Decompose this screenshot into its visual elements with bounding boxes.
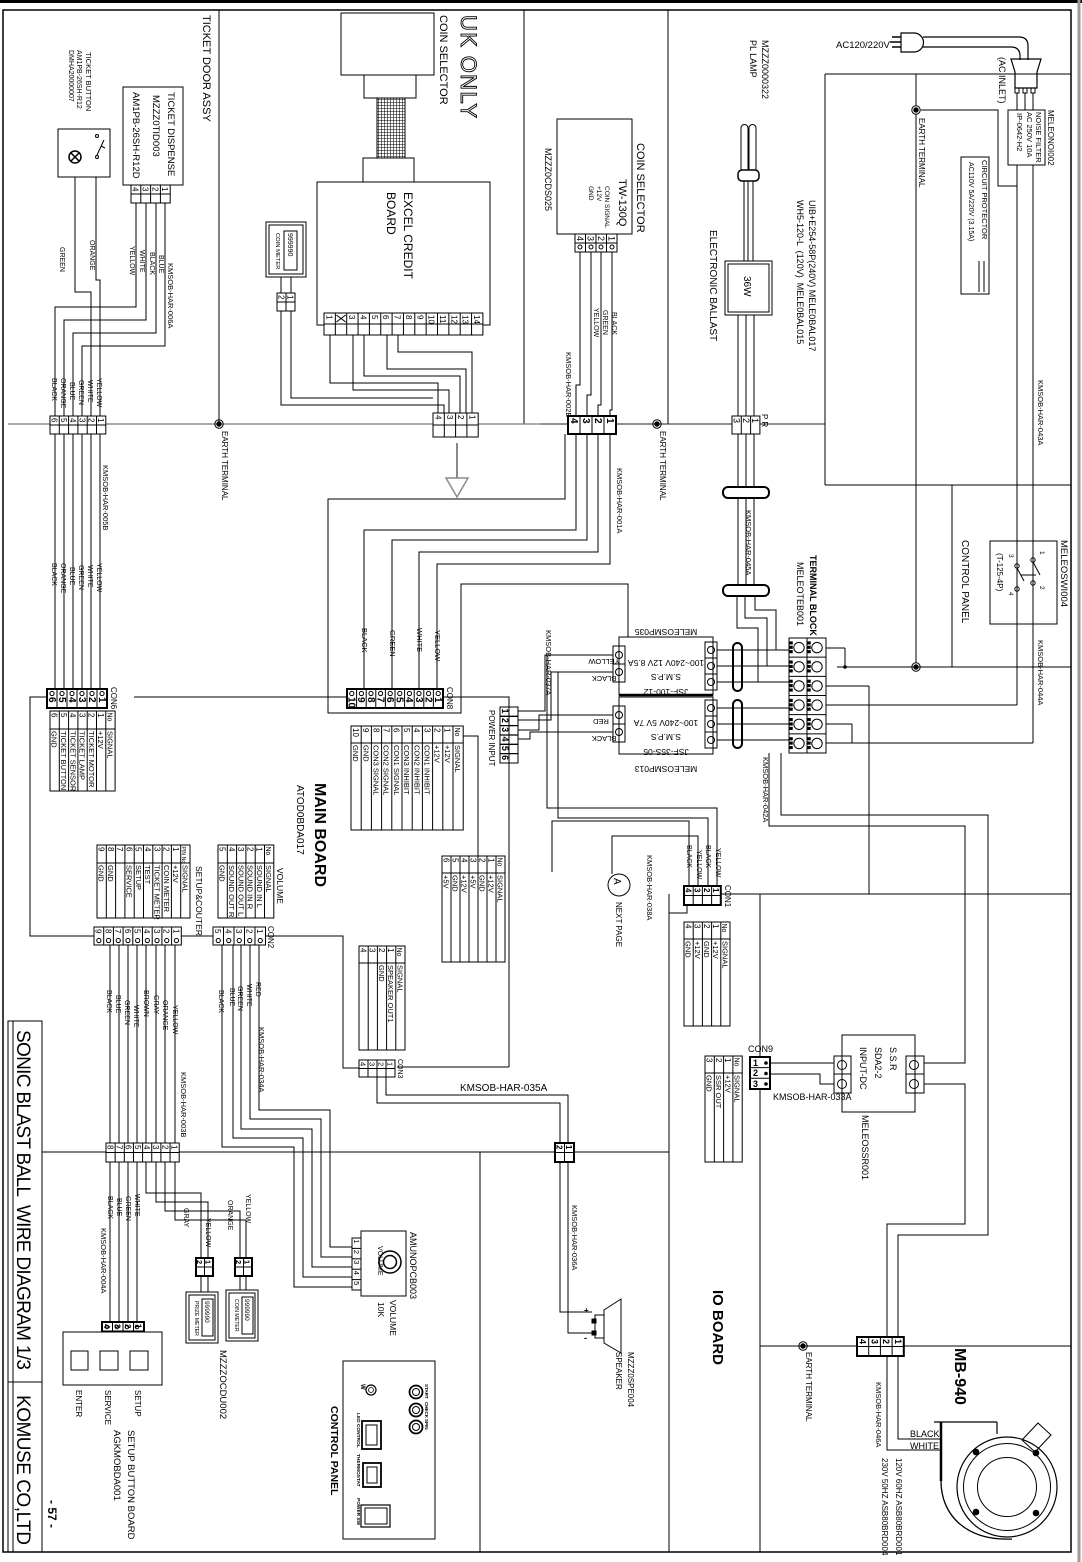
svg-text:3: 3 — [76, 697, 87, 703]
svg-text:NOISE FILTER: NOISE FILTER — [1034, 112, 1043, 163]
svg-text:KMSOB-HAR-038A: KMSOB-HAR-038A — [645, 855, 654, 920]
wires smps to CON1 — [547, 654, 613, 656]
connector J3 — [568, 416, 616, 434]
svg-text:BLACK: BLACK — [592, 674, 617, 683]
svg-text:SIGNAL: SIGNAL — [733, 1075, 742, 1103]
setup button board — [63, 1332, 162, 1385]
ferrite beads vertical — [733, 643, 742, 691]
earth terminal (coin section) — [653, 420, 661, 428]
svg-text:4: 4 — [858, 1339, 868, 1344]
svg-text:CON3: CON3 — [396, 1059, 403, 1079]
svg-text:1: 1 — [500, 709, 510, 714]
svg-text:YELLOW: YELLOW — [433, 630, 442, 662]
svg-text:(T-125-4P): (T-125-4P) — [995, 553, 1004, 592]
table volume signals — [218, 845, 274, 918]
svg-text:+12V: +12V — [96, 731, 105, 749]
svg-text:GND: GND — [50, 731, 59, 748]
svg-text:No: No — [720, 924, 727, 933]
svg-text:4: 4 — [1007, 592, 1014, 596]
svg-text:3: 3 — [586, 236, 596, 241]
svg-text:3: 3 — [704, 1058, 713, 1063]
svg-text:KMSOB-HAR-034A: KMSOB-HAR-034A — [257, 1027, 266, 1092]
wires PR down through ferrites — [737, 434, 739, 487]
svg-text:BLUE: BLUE — [157, 255, 164, 274]
svg-text:W: W — [359, 1384, 365, 1390]
svg-text:CON6: CON6 — [109, 687, 118, 710]
svg-text:SIGNAL: SIGNAL — [180, 865, 189, 893]
svg-text:ORANGE: ORANGE — [59, 563, 66, 594]
svg-text:999990: 999990 — [203, 1301, 210, 1323]
wires excel board to connector J2 — [281, 311, 444, 413]
svg-text:3: 3 — [77, 418, 86, 423]
svg-text:1: 1 — [243, 1260, 252, 1264]
svg-text:6: 6 — [392, 728, 401, 733]
wrap wire around CON8 — [328, 434, 628, 713]
svg-text:10K: 10K — [376, 1302, 386, 1317]
speaker MZZZ0SPE004 — [595, 1315, 604, 1338]
smps1 MELEOSMP035 — [619, 637, 713, 695]
svg-text:MELEOSSR001: MELEOSSR001 — [860, 1115, 870, 1180]
svg-text:DMHA20000007: DMHA20000007 — [67, 50, 74, 102]
svg-text:VOLUME: VOLUME — [275, 868, 285, 904]
svg-text:IP-0642-H2: IP-0642-H2 — [1015, 113, 1024, 151]
svg-text:4: 4 — [131, 187, 140, 192]
svg-text:230V 50HZ ASB80BRD004: 230V 50HZ ASB80BRD004 — [880, 1458, 889, 1556]
rocker switch 1 — [362, 1421, 381, 1449]
svg-text:2: 2 — [195, 1260, 204, 1264]
mains line to blower — [760, 1345, 1071, 1347]
svg-text:JSF-35S-05: JSF-35S-05 — [643, 747, 689, 757]
svg-text:6: 6 — [49, 418, 58, 423]
svg-text:MELEOTEB001: MELEOTEB001 — [795, 562, 805, 626]
svg-text:1: 1 — [285, 295, 294, 300]
svg-text:GREEN: GREEN — [77, 380, 84, 405]
wire POWER INPUT down to CON3 — [397, 1066, 509, 1068]
power cord — [923, 37, 1028, 60]
svg-text:+12V: +12V — [460, 875, 469, 893]
svg-text:999990: 999990 — [286, 233, 293, 256]
svg-text:WHITE: WHITE — [86, 380, 93, 403]
svg-text:GND: GND — [361, 745, 370, 762]
svg-text:1: 1 — [169, 1145, 178, 1150]
wires lamp circuit to terminal block — [737, 596, 758, 682]
svg-text:CON2 SIGNAL: CON2 SIGNAL — [382, 745, 391, 795]
svg-text:3: 3 — [352, 1260, 361, 1264]
svg-text:5: 5 — [59, 418, 68, 423]
wires CON9 to SSR — [770, 1062, 834, 1064]
table power out 6 — [442, 856, 505, 962]
svg-text:1: 1 — [204, 1260, 213, 1264]
svg-text:SDA2-2: SDA2-2 — [873, 1047, 883, 1079]
svg-text:4: 4 — [500, 736, 510, 741]
svg-text:7: 7 — [113, 929, 122, 934]
earth wire top — [912, 106, 920, 114]
svg-text:1: 1 — [255, 929, 264, 934]
svg-text:No: No — [453, 728, 460, 737]
wires setup counter connector down to 8pin — [109, 945, 111, 1143]
wires ticket button — [75, 177, 91, 416]
svg-text:100~240V 12V 8.5A: 100~240V 12V 8.5A — [628, 658, 705, 668]
table CON9 signals — [705, 1056, 742, 1162]
svg-text:GREEN: GREEN — [58, 247, 65, 272]
svg-text:4: 4 — [66, 697, 77, 703]
svg-text:8: 8 — [105, 1145, 114, 1150]
svg-text:3: 3 — [413, 697, 424, 703]
svg-text:SONIC BLAST BALL WIRE DIAGRAM: SONIC BLAST BALL WIRE DIAGRAM 1/3 — [12, 1030, 33, 1370]
svg-text:9: 9 — [94, 929, 103, 934]
svg-text:SOUND IN R: SOUND IN R — [246, 865, 255, 910]
svg-text:7: 7 — [115, 1145, 124, 1150]
connector CON6 — [47, 689, 107, 708]
earth terminal (io board) — [799, 1342, 807, 1350]
svg-text:SOUND OUT L: SOUND OUT L — [236, 865, 245, 916]
svg-text:10: 10 — [346, 697, 357, 709]
smps2 MELEOSMP013 — [619, 697, 713, 754]
svg-text:+12V: +12V — [443, 745, 452, 763]
svg-text:SIGNAL: SIGNAL — [105, 731, 114, 759]
svg-text:KOMUSE CO,LTD: KOMUSE CO,LTD — [12, 1395, 33, 1545]
svg-text:No: No — [395, 948, 402, 957]
coin meter connector — [277, 293, 295, 311]
svg-text:BLACK: BLACK — [217, 990, 224, 1013]
svg-text:4: 4 — [568, 418, 579, 424]
svg-text:3: 3 — [693, 924, 702, 929]
wire CON2 to CON3 — [266, 936, 359, 1068]
svg-text:GND: GND — [351, 745, 360, 762]
svg-text:YELLOW: YELLOW — [95, 563, 102, 593]
svg-text:TICKET SENSOR: TICKET SENSOR — [68, 731, 77, 792]
svg-text:BLUE: BLUE — [115, 1198, 122, 1217]
svg-text:TICKET MOTOR: TICKET MOTOR — [87, 731, 96, 788]
svg-text:4: 4 — [358, 948, 367, 953]
connector CON3 — [359, 1060, 395, 1077]
svg-text:9: 9 — [96, 847, 105, 852]
svg-text:ORANGE: ORANGE — [226, 1200, 233, 1231]
svg-text:3: 3 — [693, 888, 702, 893]
svg-text:KMSOB-HAR-002B: KMSOB-HAR-002B — [564, 352, 573, 417]
svg-text:2: 2 — [234, 1260, 243, 1264]
svg-text:SPEAKER OUT1: SPEAKER OUT1 — [386, 965, 395, 1023]
svg-text:POWER INPUT: POWER INPUT — [487, 710, 496, 767]
svg-text:AGKMOBDA001: AGKMOBDA001 — [111, 1430, 122, 1501]
svg-text:SIGNAL: SIGNAL — [720, 941, 729, 969]
wire CON6 to CON8 — [134, 696, 347, 698]
svg-text:GND: GND — [684, 941, 693, 958]
svg-text:1: 1 — [96, 697, 107, 703]
svg-text:BOARD: BOARD — [384, 192, 398, 235]
svg-text:3: 3 — [422, 728, 431, 733]
connector PR — [732, 416, 760, 434]
speaker connector — [555, 1143, 574, 1162]
svg-text:+12V: +12V — [171, 865, 180, 883]
connector MB940 — [857, 1337, 904, 1356]
svg-text:3: 3 — [77, 713, 86, 718]
svg-text:(AC INLET): (AC INLET) — [997, 57, 1007, 104]
noise filter MELEONOI002 — [1008, 110, 1045, 165]
UK coin selector head — [341, 13, 434, 75]
blower outlet nub — [1022, 1423, 1051, 1452]
svg-text:1: 1 — [96, 713, 105, 718]
svg-text:2: 2 — [162, 847, 171, 852]
ticket button SW1 — [58, 129, 110, 177]
svg-text:5: 5 — [132, 929, 141, 934]
svg-text:AM1PB-26SH-R12: AM1PB-26SH-R12 — [75, 50, 82, 109]
svg-text:5: 5 — [213, 929, 222, 934]
svg-text:7: 7 — [393, 315, 402, 320]
table CON8 signals — [351, 726, 463, 830]
svg-text:1: 1 — [711, 924, 720, 929]
coin selector connector — [575, 234, 617, 252]
svg-text:3: 3 — [151, 1145, 160, 1150]
svg-text:2: 2 — [592, 418, 603, 424]
svg-text:3: 3 — [236, 847, 245, 852]
setup buttons — [71, 1351, 88, 1370]
svg-text:5: 5 — [133, 1145, 142, 1150]
svg-text:GND: GND — [218, 865, 227, 882]
svg-text:IO BOARD: IO BOARD — [709, 1290, 726, 1365]
svg-text:2: 2 — [245, 847, 254, 852]
svg-text:+: + — [584, 1306, 589, 1315]
svg-text:ENTER: ENTER — [74, 1390, 83, 1417]
connector J1 6pin — [50, 416, 106, 434]
svg-text:2: 2 — [477, 858, 486, 863]
svg-text:CHECK: CHECK — [424, 1402, 429, 1419]
smps1 left pins — [613, 646, 625, 682]
svg-text:ELECTRONIC BALLAST: ELECTRONIC BALLAST — [707, 230, 718, 341]
svg-text:1: 1 — [1038, 551, 1045, 555]
svg-text:7: 7 — [382, 728, 391, 733]
svg-text:3: 3 — [152, 847, 161, 852]
wire CON1 corner down — [669, 905, 687, 913]
svg-text:MZZZOCDU002: MZZZOCDU002 — [217, 1350, 228, 1419]
setup counter connector — [94, 927, 181, 945]
svg-text:5: 5 — [370, 315, 379, 320]
svg-text:SSR OUT: SSR OUT — [714, 1075, 723, 1109]
svg-text:2: 2 — [352, 1250, 361, 1254]
svg-text:GND: GND — [97, 865, 106, 882]
svg-text:6: 6 — [123, 929, 132, 934]
control panel box — [343, 1361, 435, 1539]
svg-text:MB-940: MB-940 — [951, 1348, 968, 1405]
svg-text:8: 8 — [371, 728, 380, 733]
svg-text:4: 4 — [68, 713, 77, 718]
svg-text:9: 9 — [415, 315, 424, 320]
svg-text:3: 3 — [367, 1062, 376, 1066]
svg-text:SERVICE: SERVICE — [103, 1390, 112, 1425]
earth terminal (power) — [912, 663, 920, 671]
svg-text:4: 4 — [352, 1271, 361, 1275]
svg-text:TERMINAL BLOCK: TERMINAL BLOCK — [808, 555, 818, 636]
svg-text:TW-130Q: TW-130Q — [616, 179, 628, 227]
svg-text:4: 4 — [142, 929, 151, 934]
svg-text:YELLOW: YELLOW — [592, 308, 599, 338]
wires CON3 to speaker connector — [377, 1077, 560, 1143]
svg-text:36W: 36W — [741, 276, 752, 297]
svg-text:EARTH TERMINAL: EARTH TERMINAL — [220, 431, 229, 501]
svg-text:100~240V 5V 7A: 100~240V 5V 7A — [633, 718, 698, 728]
svg-text:KMSOB-HAR-037A: KMSOB-HAR-037A — [544, 630, 553, 695]
svg-text:GRAY: GRAY — [152, 995, 159, 1015]
svg-text:KMSOB-HAR-035A: KMSOB-HAR-035A — [460, 1083, 548, 1094]
prize meter — [186, 1292, 218, 1343]
svg-text:2: 2 — [741, 418, 751, 423]
svg-text:GND: GND — [478, 875, 487, 892]
blower scroll housing — [940, 1422, 943, 1481]
svg-text:SERVICE: SERVICE — [125, 865, 134, 898]
svg-text:KMSOB-HAR-004A: KMSOB-HAR-004A — [99, 1228, 108, 1293]
svg-text:3: 3 — [1007, 554, 1014, 558]
svg-text:4: 4 — [143, 847, 152, 852]
PL lamp tubes — [741, 125, 748, 170]
svg-text:4: 4 — [683, 924, 692, 929]
svg-text:5: 5 — [59, 713, 68, 718]
svg-text:CON2 INHIBIT: CON2 INHIBIT — [412, 745, 421, 795]
svg-text:2: 2 — [702, 924, 711, 929]
svg-text:YELLOW: YELLOW — [695, 850, 702, 880]
svg-text:2: 2 — [162, 929, 171, 934]
svg-text:1: 1 — [486, 858, 495, 863]
svg-text:YELLOW: YELLOW — [171, 1005, 178, 1035]
svg-text:+5V: +5V — [469, 875, 478, 889]
svg-text:10: 10 — [351, 728, 360, 737]
svg-text:999990: 999990 — [243, 1299, 250, 1321]
svg-text:1: 1 — [604, 418, 615, 424]
svg-text:JSF-100-12: JSF-100-12 — [644, 687, 689, 697]
svg-text:GND: GND — [705, 1075, 714, 1092]
svg-text:4: 4 — [68, 418, 77, 423]
svg-text:1: 1 — [385, 1062, 394, 1066]
svg-text:AMUNOPCB003: AMUNOPCB003 — [408, 1232, 418, 1299]
svg-text:S.M.P.S: S.M.P.S — [651, 732, 681, 742]
svg-text:BLACK: BLACK — [50, 563, 57, 586]
svg-text:4: 4 — [433, 415, 442, 420]
panel buttons — [410, 1386, 423, 1399]
svg-text:UK ONLY: UK ONLY — [456, 15, 481, 118]
wires terminal block right side — [826, 647, 845, 649]
svg-text:KMSOB-HAR-043A: KMSOB-HAR-043A — [1036, 380, 1045, 445]
svg-text:YELLOW: YELLOW — [204, 1218, 211, 1248]
svg-text:CON1 INHIBIT: CON1 INHIBIT — [423, 745, 432, 795]
svg-text:ORANGE: ORANGE — [59, 378, 66, 409]
meter connector B — [235, 1258, 252, 1276]
svg-text:2: 2 — [500, 718, 510, 723]
svg-text:WHITE: WHITE — [415, 628, 424, 652]
svg-text:1: 1 — [750, 418, 760, 423]
svg-text:2: 2 — [422, 697, 433, 703]
connector CON1 — [684, 886, 721, 905]
svg-text:7: 7 — [115, 847, 124, 852]
svg-text:CONTROL PANEL: CONTROL PANEL — [328, 1406, 340, 1496]
svg-text:TEST: TEST — [143, 865, 152, 885]
svg-text:POWER SW: POWER SW — [355, 1498, 361, 1526]
svg-text:6: 6 — [384, 697, 395, 703]
svg-text:MZZZ0CDS025: MZZZ0CDS025 — [543, 148, 553, 211]
svg-text:GND: GND — [106, 865, 115, 882]
coin meter (setup) — [226, 1290, 258, 1341]
svg-text:1: 1 — [753, 1058, 758, 1068]
svg-text:ORANGE: ORANGE — [161, 1000, 168, 1031]
svg-text:MZZZ0000322: MZZZ0000322 — [760, 40, 770, 99]
svg-text:YELLOW: YELLOW — [95, 378, 102, 408]
svg-text:COIN SELECTOR: COIN SELECTOR — [437, 15, 449, 105]
rocker switch 2 — [363, 1463, 381, 1487]
AC inlet — [1011, 59, 1041, 88]
svg-text:6: 6 — [46, 697, 57, 703]
svg-text:1: 1 — [96, 418, 105, 423]
svg-text:+12V: +12V — [711, 941, 720, 959]
svg-text:8: 8 — [106, 847, 115, 852]
svg-text:MZZZ0SPE004: MZZZ0SPE004 — [626, 1352, 635, 1408]
svg-text:GREEN: GREEN — [388, 630, 397, 657]
wires J1 to CON6 — [54, 434, 56, 689]
svg-text:MAIN BOARD: MAIN BOARD — [311, 783, 328, 887]
svg-text:2: 2 — [87, 713, 96, 718]
svg-text:2: 2 — [702, 888, 711, 893]
svg-text:KMSOB-HAR-044A: KMSOB-HAR-044A — [1036, 640, 1045, 705]
svg-text:GND: GND — [451, 875, 460, 892]
blower fan MB-940 — [957, 1437, 1057, 1537]
svg-text:BLACK: BLACK — [50, 378, 57, 401]
svg-text:YELLOW: YELLOW — [128, 246, 135, 276]
svg-text:RED: RED — [593, 717, 609, 726]
svg-text:1: 1 — [467, 415, 476, 420]
svg-text:CON3 INHIBIT: CON3 INHIBIT — [402, 745, 411, 795]
svg-text:BLUE: BLUE — [114, 995, 121, 1014]
svg-text:WHITE: WHITE — [132, 1005, 139, 1028]
svg-text:1: 1 — [324, 315, 333, 320]
svg-text:MZZZ0TID003: MZZZ0TID003 — [150, 95, 161, 157]
svg-text:3: 3 — [468, 858, 477, 863]
coin selector TW-130Q — [557, 119, 632, 234]
EXCEL CREDIT BOARD — [317, 182, 490, 325]
svg-text:MELEOSMP013: MELEOSMP013 — [635, 764, 698, 774]
svg-text:+12V: +12V — [487, 875, 496, 893]
svg-text:THERMOSTAT: THERMOSTAT — [355, 1454, 361, 1487]
svg-text:5: 5 — [402, 728, 411, 733]
svg-text:CIRCUIT PROTECTOR: CIRCUIT PROTECTOR — [980, 160, 989, 240]
svg-text:BLACK: BLACK — [685, 845, 692, 868]
svg-text:1: 1 — [432, 697, 443, 703]
svg-text:CON9: CON9 — [748, 1044, 773, 1054]
earth terminal (ticket section) — [215, 420, 223, 428]
svg-text:1: 1 — [255, 847, 264, 852]
connector CON2 — [213, 927, 266, 945]
svg-text:1: 1 — [443, 728, 452, 733]
svg-text:2: 2 — [150, 187, 159, 192]
svg-text:6: 6 — [381, 315, 390, 320]
svg-text:5: 5 — [217, 847, 226, 852]
svg-text:1: 1 — [386, 948, 395, 953]
title block strip — [8, 1021, 42, 1552]
svg-text:No: No — [495, 858, 502, 867]
svg-text:11: 11 — [438, 315, 447, 324]
svg-text:AC120/220V: AC120/220V — [836, 40, 891, 51]
table CON1 signals — [684, 922, 730, 1026]
svg-text:2: 2 — [86, 697, 97, 703]
svg-text:3: 3 — [869, 1339, 879, 1344]
svg-text:AC 250V 10A: AC 250V 10A — [1025, 112, 1034, 157]
svg-text:4: 4 — [358, 1062, 367, 1066]
smps1 right pins — [705, 642, 717, 690]
svg-text:S.S.R: S.S.R — [888, 1047, 898, 1071]
svg-text:EARTH TERMINAL: EARTH TERMINAL — [804, 1352, 813, 1422]
svg-text:UIB+E254-58P(240V) MELE0BAL017: UIB+E254-58P(240V) MELE0BAL017 — [807, 200, 817, 351]
S.S.R unit MELEOSSR001 — [842, 1035, 915, 1112]
svg-text:SETUP: SETUP — [134, 865, 143, 890]
smps2 left pins — [613, 706, 625, 742]
svg-text:14: 14 — [472, 315, 481, 324]
svg-text:KMSOB-HAR-046A: KMSOB-HAR-046A — [874, 1382, 883, 1447]
